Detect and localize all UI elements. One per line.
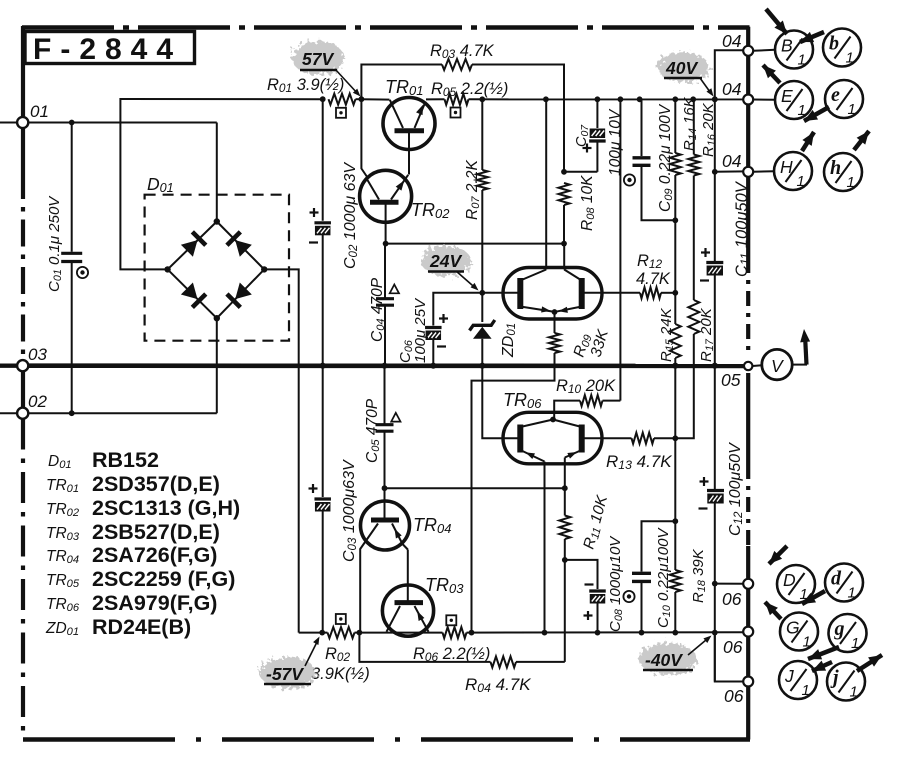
node 01/C01 junction	[69, 120, 75, 126]
resistor R01	[329, 94, 356, 105]
label R17	[698, 307, 716, 362]
svg-text:2SB527(D,E): 2SB527(D,E)	[92, 520, 220, 544]
voltage label 24V	[421, 246, 471, 276]
terminal V	[744, 362, 752, 370]
terminal 01	[0, 122, 17, 124]
node C09 top	[637, 96, 643, 102]
svg-text:G: G	[786, 618, 800, 638]
wire R11 node to R04	[564, 560, 566, 662]
svg-text:R04 4.7K: R04 4.7K	[465, 675, 531, 695]
terminal circle J	[743, 677, 753, 687]
capacitor C10	[642, 521, 676, 571]
wire bridge bottom to 02	[216, 318, 218, 413]
wire chain1 bus-to-R13	[674, 366, 676, 439]
arrow at b	[800, 32, 824, 42]
connector G/1	[780, 613, 818, 651]
arrow at B	[766, 9, 787, 34]
svg-text:H: H	[780, 157, 793, 177]
wire B-H link	[715, 50, 745, 172]
svg-text:1: 1	[798, 52, 806, 69]
svg-text:1: 1	[802, 682, 810, 699]
arrow at h	[854, 131, 869, 150]
capacitor C04	[384, 244, 386, 298]
wire TR05 left collector	[545, 99, 547, 269]
svg-text:R13 4.7K: R13 4.7K	[606, 452, 672, 472]
svg-text:04: 04	[722, 79, 742, 99]
node C07 top	[595, 96, 601, 102]
svg-text:RB152: RB152	[92, 448, 159, 472]
node R01 left junction	[320, 96, 326, 102]
svg-text:R14 16K: R14 16K	[681, 96, 699, 151]
node TR06 emitter rail	[542, 630, 548, 636]
wire TR05 right base to R12	[582, 292, 640, 294]
svg-text:R18 39K: R18 39K	[690, 548, 708, 603]
node bridge right vertex	[261, 266, 267, 272]
marker square R02	[336, 614, 346, 624]
svg-text:1: 1	[846, 50, 854, 67]
connector B/1	[775, 31, 813, 69]
diode D01 lower-left	[181, 282, 198, 299]
connector g/1	[829, 614, 867, 652]
svg-text:R07 2.2K: R07 2.2K	[464, 160, 482, 220]
svg-text:1: 1	[797, 173, 805, 190]
node bus chain1	[672, 363, 678, 369]
terminal circle B	[743, 46, 753, 56]
svg-text:01: 01	[30, 102, 49, 121]
svg-text:E: E	[781, 86, 793, 106]
wire 40V bus into TR01 collector	[361, 98, 389, 100]
node 02/C01 junction	[69, 410, 75, 416]
capacitor C07	[596, 99, 598, 128]
capacitor C11	[714, 172, 716, 262]
wire TR05 right collector	[563, 244, 565, 270]
node -40V cross	[712, 630, 718, 636]
node C10 junction	[672, 518, 678, 524]
label C07	[574, 124, 591, 147]
svg-text:1: 1	[851, 635, 859, 652]
label C07 value	[607, 108, 624, 176]
dual transistor TR05	[503, 268, 602, 320]
node C09 bottom junction	[672, 217, 678, 223]
resistor R08	[559, 183, 570, 205]
svg-text:R03 4.7K: R03 4.7K	[430, 42, 495, 61]
wire 57V to R03	[361, 65, 442, 100]
svg-text:2SA726(F,G): 2SA726(F,G)	[92, 543, 217, 567]
svg-text:40V: 40V	[665, 58, 698, 78]
dual transistor TR06	[503, 412, 602, 464]
wire E stub	[753, 99, 775, 101]
wire bridge right vertex to -57V rail	[264, 269, 299, 632]
svg-text:1: 1	[803, 634, 811, 651]
svg-text:2SC2259 (F,G): 2SC2259 (F,G)	[92, 567, 235, 591]
wire ZD01 to TR06 base	[482, 366, 520, 439]
svg-text:100μ 25V: 100μ 25V	[412, 297, 429, 363]
label C09	[657, 103, 675, 212]
node bridge top vertex	[214, 218, 220, 224]
svg-text:06: 06	[724, 686, 744, 706]
node TR05 left collector top	[543, 96, 549, 102]
node bridge bottom vertex	[214, 315, 220, 321]
svg-text:04: 04	[722, 31, 742, 51]
wire 02 line	[28, 412, 217, 414]
svg-text:d: d	[831, 568, 842, 590]
resistor R14	[674, 99, 676, 153]
wire rail TR03 segment	[359, 632, 442, 634]
node TR05 emitters	[552, 309, 558, 315]
wire H stub	[753, 170, 774, 173]
node C08 rail	[595, 630, 601, 636]
resistor R06	[443, 627, 467, 638]
resistor R07	[481, 99, 483, 170]
wire TR02 base node	[386, 243, 564, 245]
node TR04 base junction	[382, 485, 388, 491]
svg-text:24V: 24V	[429, 251, 462, 271]
transistor TR03	[382, 585, 433, 636]
title box F-2844	[25, 32, 195, 64]
terminal circle D	[743, 579, 753, 589]
connector d/1	[825, 564, 863, 602]
wire TR04 base line	[385, 487, 565, 489]
node bridge left vertex	[164, 266, 170, 272]
resistor R04	[491, 656, 517, 667]
svg-text:1: 1	[850, 684, 858, 701]
label R08	[579, 175, 597, 231]
diode D01 upper-left	[181, 240, 198, 257]
dashed enclosure D01	[145, 195, 289, 341]
svg-text:g: g	[834, 618, 845, 640]
wire R14-R15 segment	[674, 220, 676, 324]
label R07	[464, 160, 482, 220]
wire -57V rail	[299, 632, 328, 634]
resistor R16	[693, 99, 695, 154]
diode D01 lower-right	[235, 282, 252, 299]
svg-text:57V: 57V	[302, 49, 334, 69]
node C11/C12 ground	[712, 363, 718, 369]
svg-text:R17 20K: R17 20K	[698, 307, 716, 362]
label R14	[681, 96, 699, 151]
svg-text:1: 1	[847, 174, 855, 191]
marker square R05	[451, 108, 461, 118]
svg-text:3.9K(½): 3.9K(½)	[311, 665, 370, 683]
capacitor C09	[641, 99, 643, 156]
resistor R15	[670, 324, 681, 358]
connector b/1	[823, 29, 861, 67]
resistor R11	[564, 488, 566, 515]
node R10 feed top	[618, 96, 624, 102]
node R06 right junction	[469, 630, 475, 636]
capacitor C08	[565, 560, 598, 589]
node C11 40V junction	[712, 96, 718, 102]
svg-text:C05 470P: C05 470P	[364, 398, 382, 463]
node TR03 rail junction	[357, 630, 363, 636]
node R13 junction	[672, 435, 678, 441]
wire R04 line	[359, 633, 490, 662]
resistor R12	[640, 287, 661, 298]
voltage label 40V	[657, 52, 709, 82]
capacitor C03	[314, 497, 331, 500]
node bus C06	[430, 363, 436, 369]
connector E/1	[775, 81, 813, 119]
svg-text:h: h	[830, 157, 841, 179]
node H stub junction	[712, 169, 718, 175]
terminal circle H	[743, 167, 753, 177]
arrow at D	[769, 546, 787, 564]
svg-text:03: 03	[28, 345, 47, 364]
label C02	[342, 162, 360, 269]
resistor R02	[328, 627, 355, 638]
wire J stub	[715, 633, 745, 682]
wire bridge left vertex to 57V rail	[120, 99, 323, 269]
bus 03 ground	[28, 363, 744, 368]
svg-text:1: 1	[848, 101, 856, 118]
svg-text:B: B	[781, 36, 793, 56]
svg-text:R10 20K: R10 20K	[556, 377, 616, 396]
svg-text:R01 3.9(½): R01 3.9(½)	[267, 76, 344, 95]
marker square R06	[446, 615, 456, 625]
svg-text:04: 04	[722, 151, 742, 171]
node R01 right junction	[359, 96, 365, 102]
resistor R03	[442, 59, 472, 70]
node C04 top	[383, 241, 389, 247]
node R14 top	[672, 96, 678, 102]
label C12	[727, 442, 745, 536]
resistor R05	[426, 98, 445, 100]
marker square R01	[336, 108, 346, 118]
svg-text:2SC1313 (G,H): 2SC1313 (G,H)	[92, 496, 240, 520]
label ZD01	[500, 323, 518, 358]
capacitor C01	[71, 123, 73, 252]
svg-text:06: 06	[722, 589, 742, 609]
zener diode ZD01	[481, 293, 483, 322]
voltage label 57V	[292, 41, 344, 75]
svg-text:4.7K: 4.7K	[636, 270, 671, 288]
node R16 top	[690, 96, 696, 102]
svg-text:e: e	[831, 84, 840, 106]
transistor TR02	[360, 170, 412, 222]
arrow at j	[857, 655, 882, 671]
label R11	[580, 493, 612, 551]
node R11 bottom junction	[562, 557, 568, 563]
svg-text:J: J	[784, 666, 794, 686]
node C03 bottom	[319, 630, 325, 636]
node R08 top junction	[561, 169, 567, 175]
node TR06 collectors	[550, 417, 556, 423]
node bus C02	[320, 363, 326, 369]
resistor R18	[674, 521, 676, 570]
svg-text:06: 06	[723, 637, 743, 657]
capacitor C05	[384, 366, 386, 424]
capacitor C12	[707, 489, 724, 492]
wire R01 to node	[356, 98, 362, 100]
svg-text:C04 470P: C04 470P	[369, 277, 387, 342]
node R07 top	[479, 96, 485, 102]
connector J/1	[779, 661, 817, 699]
svg-text:02: 02	[28, 392, 47, 411]
terminal 02	[0, 412, 17, 414]
svg-text:1: 1	[848, 585, 856, 602]
wire right terminal rail (04/06 bus)	[746, 27, 750, 258]
node C10 rail	[639, 630, 645, 636]
connector e/1	[825, 80, 863, 118]
wire 40V to R10	[619, 99, 621, 400]
svg-text:D: D	[783, 570, 796, 590]
svg-text:R08 10K: R08 10K	[579, 175, 597, 231]
svg-text:RD24E(B): RD24E(B)	[92, 615, 191, 639]
arrow at g	[808, 647, 839, 659]
wire 01 line	[28, 122, 217, 124]
svg-text:2SA979(F,G): 2SA979(F,G)	[92, 591, 217, 615]
voltage label -57V	[260, 657, 316, 689]
arrow at J	[812, 662, 832, 671]
label R15	[658, 307, 676, 362]
label C08	[607, 535, 625, 632]
bridge rectifier D01 diamond	[168, 222, 265, 319]
svg-text:R15 24K: R15 24K	[658, 307, 676, 362]
svg-text:F-2844: F-2844	[33, 33, 182, 66]
node R18 bottom	[672, 630, 678, 636]
wire TR06 right base to R13	[582, 437, 632, 439]
label C10	[655, 527, 673, 628]
resistor R17	[688, 300, 699, 334]
svg-text:2SD357(D,E): 2SD357(D,E)	[92, 472, 220, 496]
label R18	[690, 548, 708, 603]
svg-text:b: b	[829, 33, 839, 55]
node bus C04/C05	[381, 363, 387, 369]
arrow at E	[763, 65, 780, 83]
resistor R13	[632, 433, 655, 444]
diode D01 upper-right	[235, 240, 252, 257]
capacitor C02	[322, 99, 324, 221]
label C01 value	[46, 195, 64, 292]
wire R01 node down to TR02	[361, 99, 367, 177]
wire R03 to R08 node	[472, 65, 564, 172]
node C02 ground	[320, 363, 326, 369]
node R15 ground	[672, 363, 678, 369]
node D stub junction	[712, 581, 718, 587]
label C04	[369, 277, 387, 342]
arrow at e	[804, 107, 829, 121]
resistor R09	[554, 312, 556, 333]
svg-text:-40V: -40V	[645, 650, 683, 670]
node R11 top junction	[562, 485, 568, 491]
transistor TR01	[383, 98, 435, 150]
wire TR06 left emitter down	[544, 462, 546, 633]
arrow at H	[802, 132, 814, 151]
connector h/1	[824, 153, 862, 191]
terminal 03	[0, 364, 17, 368]
label R16	[700, 102, 718, 157]
label C05	[364, 398, 382, 463]
svg-text:R05 2.2(½): R05 2.2(½)	[431, 80, 508, 99]
arrow at G	[765, 602, 781, 619]
svg-text:100μ 10V: 100μ 10V	[607, 108, 624, 176]
node bus ZD01	[479, 363, 485, 369]
label C11	[733, 180, 752, 277]
wire chain1 R13-to-C10	[674, 438, 676, 521]
resistor R10	[603, 400, 621, 402]
label R09 value	[588, 327, 613, 359]
terminal circle E	[743, 95, 753, 105]
svg-text:05: 05	[721, 370, 741, 390]
label C06 value	[412, 297, 429, 363]
svg-text:-57V: -57V	[266, 664, 304, 684]
label C06	[397, 340, 415, 363]
capacitor C06	[433, 293, 482, 326]
connector H/1	[774, 152, 812, 190]
node 24V junction	[479, 290, 485, 296]
node R08 bottom junction	[561, 241, 567, 247]
connector D/1	[777, 565, 815, 603]
label R09	[571, 332, 595, 360]
terminal circle G	[743, 627, 753, 637]
label C03	[341, 459, 359, 562]
connector j/1	[827, 663, 865, 701]
node bus C11C12	[712, 363, 718, 369]
node R12 right	[672, 290, 678, 296]
wire B stub	[753, 50, 775, 51]
svg-text:1: 1	[798, 102, 806, 119]
transistor TR04	[361, 501, 410, 550]
node C11 top	[712, 96, 718, 102]
arrow at d	[802, 591, 825, 604]
wire TR06 right emitter down	[564, 458, 566, 489]
voltage label -40V	[639, 643, 697, 675]
